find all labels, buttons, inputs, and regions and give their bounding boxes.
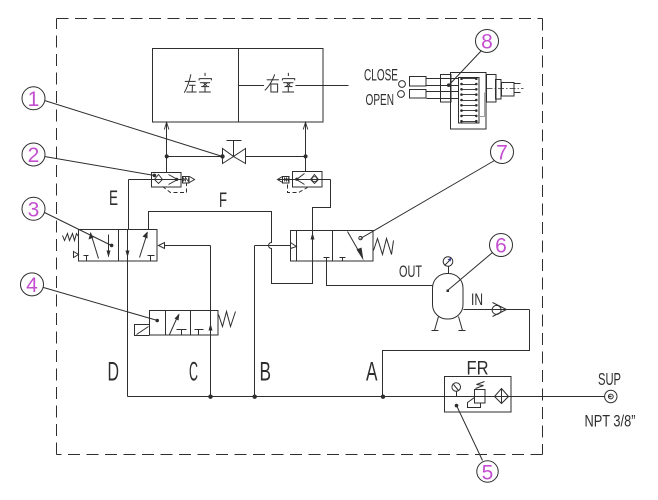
- svg-text:5: 5: [482, 462, 494, 485]
- pilot dashed line QE1: [163, 183, 187, 193]
- pilot arrow V7 left: [291, 243, 297, 249]
- label 右室 second char 室: [282, 73, 295, 92]
- svg-text:3: 3: [28, 199, 40, 222]
- cylinder chamber box: [153, 49, 324, 123]
- pilot triangle V3 left: [74, 252, 79, 258]
- node junction right: [304, 154, 308, 158]
- node junction A: [381, 395, 385, 399]
- svg-text:2: 2: [28, 144, 40, 167]
- svg-text:SUP: SUP: [598, 369, 621, 389]
- air tank T1: [433, 257, 464, 319]
- svg-text:CLOSE: CLOSE: [364, 67, 398, 85]
- svg-text:NPT 3/8”: NPT 3/8”: [585, 412, 636, 430]
- svg-text:C: C: [189, 357, 198, 387]
- node junction C: [208, 395, 212, 399]
- node junction valve inlet: [220, 154, 224, 158]
- svg-text:4: 4: [26, 274, 38, 297]
- wire C pilot drop through valve V4: [210, 246, 212, 397]
- wire right chamber drop with arrow: [303, 122, 308, 171]
- node junction left: [165, 154, 169, 158]
- arrow inside V4 right cell: [209, 324, 213, 331]
- balloon digits: [26, 31, 508, 485]
- wire E drop: [128, 180, 130, 230]
- wire QE2 to valve7 top: [313, 180, 331, 231]
- label 左室: [184, 74, 196, 92]
- valve V7 slant arrow (leader 7 tail): [348, 232, 364, 261]
- balloon 1: [22, 87, 223, 157]
- tank legs: [432, 317, 466, 331]
- balloon 3: [22, 197, 113, 247]
- bus line bottom: [128, 396, 605, 398]
- OPEN switch lead: [398, 90, 459, 99]
- CLOSE switch lead: [399, 77, 459, 88]
- wire left chamber drop with arrow: [164, 122, 169, 172]
- valve V7 left cell flow: [311, 231, 330, 262]
- valve V7 body 3/2: [291, 231, 374, 262]
- svg-text:F: F: [219, 188, 227, 212]
- svg-text:8: 8: [481, 31, 493, 54]
- svg-text:FR: FR: [467, 358, 489, 380]
- muffler M2: [278, 177, 290, 184]
- pilot arrow V3 right: [159, 243, 211, 249]
- spring V7: [374, 239, 394, 255]
- wire F run: [149, 212, 313, 284]
- balloon 4: [21, 273, 160, 322]
- node junction B: [253, 395, 257, 399]
- valve V4 middle cell arrow: [170, 314, 187, 336]
- wire OUT from valve V7: [327, 262, 433, 286]
- internal link lines: [480, 93, 485, 122]
- wire A riser: [383, 310, 530, 397]
- limit switch contact ladder: [462, 79, 477, 122]
- svg-text:A: A: [366, 357, 378, 387]
- wire equalizing line left: [167, 156, 223, 158]
- wire D drop: [127, 262, 129, 397]
- balloon 6: [447, 234, 513, 293]
- svg-text:OUT: OUT: [399, 263, 422, 281]
- svg-text:E: E: [109, 186, 118, 210]
- ladder terminal dots: [460, 77, 477, 122]
- pilot dashed line QE2: [288, 185, 308, 193]
- quick exhaust valve QE2 body: [278, 172, 331, 188]
- valve V3 right cell flow arrows: [126, 230, 155, 262]
- label 右室: [265, 74, 279, 92]
- svg-text:1: 1: [28, 88, 40, 111]
- svg-text:D: D: [108, 357, 120, 387]
- balloon 8: [447, 30, 499, 87]
- svg-text:OPEN: OPEN: [366, 92, 395, 109]
- muffler M1: [183, 177, 195, 184]
- valve V4 right cell exhaust: [195, 330, 204, 336]
- valve V3 left cell flow arrows: [84, 233, 111, 262]
- balloon 2: [22, 143, 156, 177]
- valve V7 right cell exhaust: [340, 258, 346, 262]
- wire equalizing line right: [246, 156, 306, 158]
- spring V4: [219, 312, 236, 327]
- svg-text:B: B: [260, 357, 272, 387]
- quick exhaust valve QE1 body: [129, 173, 183, 188]
- valve V3 body 5/2: [79, 230, 158, 262]
- svg-text:7: 7: [496, 142, 508, 165]
- valve V4 body 3/2 solenoid: [150, 311, 219, 336]
- wire tank inlet: [464, 309, 530, 311]
- check valve CV1: [492, 303, 506, 317]
- node stem line from right chamber: [239, 85, 265, 87]
- spring V3: [63, 234, 79, 241]
- border frame dashed: [57, 19, 543, 455]
- balloon 5: [455, 404, 498, 482]
- balloon 7: [359, 141, 514, 240]
- filter regulator FR unit: [445, 377, 512, 413]
- manual valve V1 (bowtie): [223, 141, 246, 164]
- svg-text:IN: IN: [471, 290, 483, 309]
- svg-text:6: 6: [495, 235, 507, 258]
- solenoid box V4: [135, 325, 150, 336]
- wire B pilot with crossover jump: [255, 246, 291, 397]
- supply port SUP: [605, 390, 617, 402]
- limit switch assembly LS1: [441, 73, 524, 130]
- label 左室 second char 室: [199, 73, 212, 92]
